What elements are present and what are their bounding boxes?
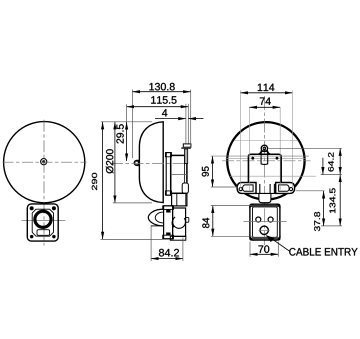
dim 84.2 line [151, 258, 183, 260]
horizontal centerline of base [22, 219, 66, 221]
rear circle [227, 122, 304, 199]
rear horizontal centerline [222, 160, 311, 162]
dim 70 text [258, 245, 269, 253]
bell gong circle [4, 122, 85, 203]
dim 130.8 line [132, 91, 190, 93]
dim 84 line [212, 205, 214, 236]
bolt stem extension line right [187, 104, 189, 144]
dim 84 text [202, 218, 209, 228]
neck hinge piece [259, 194, 271, 203]
side cable tab [186, 217, 189, 222]
left tab wing [237, 183, 256, 194]
mounting plate bottom cap [165, 191, 171, 195]
dim 130.8 ext right [190, 90, 192, 147]
bracket screw right [276, 157, 279, 160]
dim 114 text [258, 84, 275, 91]
terminal box bottom flange [170, 236, 186, 240]
bell horizontal centerline [3, 161, 87, 163]
dim 115.5 line [127, 106, 189, 108]
clapper knob hole [135, 162, 137, 165]
dim 95 ext bottom [211, 186, 238, 188]
linkage block inner line 1 [176, 193, 178, 206]
corner screw top-right [52, 206, 56, 210]
housing side clip [182, 183, 188, 193]
base plate inner chamfered rim [32, 209, 53, 236]
keyhole tab flare right [267, 150, 271, 154]
dim 290 text [92, 173, 97, 190]
junction box inner [253, 207, 278, 237]
cable entry leader [268, 236, 291, 252]
adjuster bolt shank [185, 149, 188, 164]
dim 134.5 line [339, 175, 341, 226]
right tab bolt [289, 188, 292, 191]
dim 84.2 text [159, 249, 179, 257]
adjuster bolt flange [181, 147, 191, 149]
dim 37.8 text [314, 212, 320, 231]
dim 95 text [202, 166, 209, 176]
dim 74 text [260, 98, 271, 105]
dim 114 ext right [291, 90, 293, 188]
ext tab bottom level [296, 190, 325, 192]
clapper hub dot [42, 160, 45, 163]
base label recess [37, 230, 50, 236]
construction line y178 [230, 175, 316, 177]
cable entry crosshair h [259, 229, 270, 231]
dim 134.5 text [329, 188, 335, 213]
corner screw bottom-left [30, 235, 33, 238]
dim 64.2 line [339, 148, 341, 174]
box centerline h [244, 221, 287, 223]
terminal box side [173, 208, 186, 236]
dim 37.8 line [323, 191, 325, 226]
dim 29.5 text [116, 124, 123, 143]
resonator dome inner [155, 212, 163, 223]
dim 114 line [240, 92, 292, 94]
bell vertical centerline [43, 120, 45, 246]
dim 70 ext left [249, 242, 251, 257]
dim 115.5 text [151, 96, 176, 103]
clapper knob [134, 160, 140, 166]
dim 29.5 line [126, 122, 128, 161]
keyhole tab flare left [258, 150, 262, 154]
dim 70 ext right [277, 242, 279, 257]
lower plate bottom cap [163, 235, 174, 239]
bolt stem extension line left [185, 104, 187, 144]
dim 95 ext top [211, 155, 309, 157]
ext keyhole level [269, 147, 342, 149]
dim 290 line [102, 122, 104, 240]
keyhole tab outer head [261, 145, 267, 151]
lower plate screw top [166, 210, 170, 213]
right tab slot [279, 185, 290, 191]
gong bottom ext line [113, 202, 152, 204]
dim 84.2 ext left [150, 227, 152, 262]
construction line y158 [226, 157, 307, 159]
dim 200 text [106, 149, 114, 173]
ext 174.6 level [321, 174, 342, 176]
right tab wing [276, 183, 295, 194]
dim 84 ext top [211, 205, 252, 207]
corner screw top-left [30, 206, 34, 210]
mounting plate (gong to housing) [166, 153, 171, 196]
inner chain line [322, 158, 324, 175]
middle centerline [111, 163, 184, 165]
cable entry leader arrow [266, 235, 274, 242]
adjuster bolt head [183, 144, 191, 147]
linkage block inner line 2 [185, 193, 187, 206]
dim 74 ext left [248, 107, 250, 190]
box corner ear BL [249, 236, 254, 241]
base plate [27, 204, 58, 241]
housing inner line [183, 155, 185, 193]
housing mid joint line [171, 173, 187, 175]
junction box outer [250, 204, 280, 240]
cable entry label [289, 248, 357, 256]
ext 225.9 level [321, 225, 342, 227]
gong profile [139, 122, 163, 203]
neck block [256, 184, 274, 194]
lower plate [164, 206, 173, 239]
bracket screw left [252, 157, 255, 160]
dim 95 line [212, 156, 214, 187]
dim 130.8 ext left [131, 90, 133, 159]
clapper hub ring [41, 159, 47, 165]
dim 4 text [162, 109, 167, 116]
box hole right [268, 217, 273, 222]
cable hole side view (dashed circle) [172, 217, 185, 228]
lower plate screw bottom [166, 233, 170, 236]
dim 4 left tail with arrow [155, 118, 186, 120]
construction line horizontal [234, 140, 297, 142]
box corner ear BR [276, 236, 281, 241]
dim 64.2 text [328, 153, 334, 172]
box corner ear TL [249, 204, 254, 209]
dim 84.2 ext right [182, 238, 184, 262]
mounting plate top cap [165, 153, 171, 157]
dim 115.5 / 29.5 ext line [126, 104, 128, 122]
corner screw bottom-right [52, 235, 55, 238]
linkage block below housing [172, 193, 187, 206]
side view bottom ext line [101, 238, 163, 240]
dim 4 right tail with arrow [188, 118, 203, 120]
box bottom band [252, 237, 278, 239]
gong top ext line [101, 121, 152, 123]
mechanism housing box [171, 155, 187, 193]
left tab slot [243, 185, 254, 191]
left tab bolt [239, 188, 242, 191]
dome base line [151, 225, 164, 227]
box hole left [256, 217, 261, 222]
keyhole slot [261, 151, 268, 165]
bracket plate [248, 154, 281, 184]
keyhole circle [263, 147, 266, 150]
dim 70 line [250, 253, 278, 255]
resonator dome outer [148, 209, 163, 226]
dim 114 ext left [239, 90, 241, 188]
cable entry hole [260, 226, 268, 234]
lower plate top cap [163, 206, 174, 210]
base ring boss [35, 211, 51, 227]
dim 84 ext bottom [211, 235, 253, 237]
dim 200 line [114, 122, 116, 203]
dim 74 ext right [279, 107, 281, 190]
dim 74 line [249, 106, 280, 108]
dim 130.8 text [149, 83, 174, 91]
rear vertical centerline [263, 96, 265, 253]
box top band [252, 205, 279, 207]
box corner ear TR [276, 204, 281, 209]
